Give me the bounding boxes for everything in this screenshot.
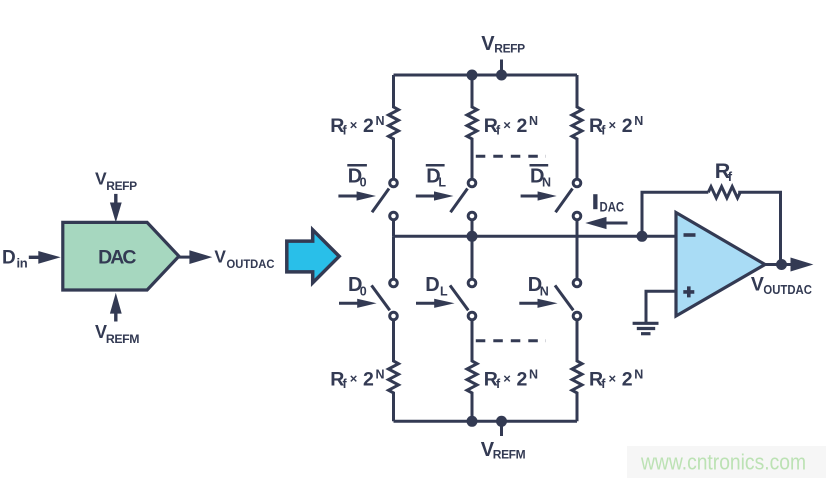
wire V_REFP stub bbox=[500, 60, 503, 76]
svg-text:DAC: DAC bbox=[98, 246, 136, 268]
svg-text:D: D bbox=[425, 274, 439, 296]
node V_OUTDAC (op-amp) bbox=[751, 273, 813, 297]
svg-text:N: N bbox=[542, 176, 551, 190]
label D̄N + control arrow (top col3) bbox=[521, 165, 557, 200]
ground bbox=[633, 323, 659, 333]
svg-text:REFP: REFP bbox=[106, 179, 137, 193]
dashed separator (bottom) bbox=[476, 339, 546, 342]
wire col3 switch to mid bus bbox=[576, 221, 579, 236]
dashed separator (top) bbox=[476, 155, 546, 158]
svg-text:OUTDAC: OUTDAC bbox=[227, 257, 275, 271]
node V_REFM (ladder) bbox=[481, 439, 526, 462]
switch DN (bottom col3) bbox=[555, 279, 581, 320]
svg-text:2: 2 bbox=[363, 115, 374, 137]
svg-text:REFP: REFP bbox=[494, 42, 525, 56]
svg-text:2: 2 bbox=[622, 369, 633, 391]
svg-text:f: f bbox=[728, 169, 733, 184]
svg-text:2: 2 bbox=[517, 115, 528, 137]
junction dot bottom bus col2 bbox=[467, 416, 478, 427]
resistor Rf x 2^N (bottom col3) bbox=[572, 321, 643, 421]
svg-text:V: V bbox=[481, 33, 495, 55]
svg-text:N: N bbox=[376, 368, 385, 382]
resistor Rf x 2^N (top col1) bbox=[330, 75, 398, 178]
svg-text:OUTDAC: OUTDAC bbox=[763, 282, 812, 297]
switch D̄L (top col2) bbox=[451, 179, 476, 220]
svg-text:f: f bbox=[601, 377, 606, 391]
svg-text:REFM: REFM bbox=[493, 448, 526, 462]
switch D̄0 (top col1) bbox=[372, 179, 397, 220]
big flow arrow bbox=[287, 230, 339, 283]
svg-text:N: N bbox=[540, 284, 549, 298]
svg-text:f: f bbox=[601, 124, 606, 138]
svg-text:V: V bbox=[214, 246, 226, 266]
junction dot top bus col2 bbox=[467, 70, 478, 81]
node D_in bbox=[2, 247, 61, 270]
wire col1 switch to mid bus bbox=[392, 221, 395, 236]
watermark bbox=[627, 446, 826, 478]
svg-text:DAC: DAC bbox=[600, 200, 625, 216]
svg-text:×: × bbox=[503, 371, 511, 386]
svg-text:2: 2 bbox=[622, 115, 633, 137]
svg-text:L: L bbox=[438, 176, 446, 190]
label D0 + control arrow (bottom col1) bbox=[339, 274, 377, 308]
svg-text:f: f bbox=[343, 124, 348, 138]
label D̄L + control arrow (top col2) bbox=[416, 165, 454, 200]
svg-text:×: × bbox=[609, 371, 617, 386]
svg-text:N: N bbox=[529, 114, 538, 128]
svg-text:0: 0 bbox=[360, 284, 367, 298]
svg-text:×: × bbox=[609, 117, 617, 132]
svg-text:V: V bbox=[95, 168, 107, 188]
switch DL (bottom col2) bbox=[450, 279, 476, 320]
wire feedback tap up bbox=[642, 192, 708, 236]
node V_OUTDAC (DAC block output) bbox=[179, 246, 275, 271]
switch D̄N (top col3) bbox=[556, 179, 581, 220]
svg-text:f: f bbox=[343, 377, 348, 391]
output arrow bbox=[782, 258, 814, 272]
wire col3 mid bus to lower switch bbox=[576, 236, 579, 278]
junction dot output bbox=[776, 259, 787, 270]
svg-text:N: N bbox=[634, 114, 643, 128]
svg-text:×: × bbox=[503, 117, 511, 132]
svg-text:2: 2 bbox=[517, 369, 528, 391]
svg-text:L: L bbox=[440, 284, 448, 298]
label D̄0 + control arrow (top col1) bbox=[338, 165, 376, 200]
svg-text:N: N bbox=[376, 114, 385, 128]
node V_REFM (DAC block) bbox=[95, 293, 139, 347]
svg-text:f: f bbox=[496, 377, 501, 391]
wire op-amp output bbox=[765, 263, 782, 266]
wire col2 mid bus to lower switch bbox=[471, 236, 474, 278]
junction dot mid bus feedback tap bbox=[637, 231, 648, 242]
wire col1 mid bus to lower switch bbox=[392, 236, 395, 278]
node V_REFP (DAC block) bbox=[95, 168, 137, 222]
svg-text:0: 0 bbox=[360, 176, 367, 190]
DAC block U1 bbox=[63, 222, 179, 290]
label DN + control arrow (bottom col3) bbox=[519, 274, 557, 308]
wire feedback to output bbox=[738, 192, 780, 264]
resistor Rf x 2^N (bottom col2) bbox=[467, 321, 538, 421]
svg-text:www.cntronics.com: www.cntronics.com bbox=[640, 450, 806, 475]
svg-text:REFM: REFM bbox=[106, 332, 139, 346]
wire V_REFM stub bbox=[500, 421, 503, 436]
svg-text:2: 2 bbox=[363, 369, 374, 391]
resistor Rf (feedback) bbox=[708, 159, 740, 198]
wire col2 switch to mid bus bbox=[471, 221, 474, 236]
wire top bus bbox=[394, 74, 578, 77]
svg-text:D: D bbox=[2, 247, 15, 268]
svg-text:×: × bbox=[350, 371, 358, 386]
junction dot mid bus col2 bbox=[467, 231, 478, 242]
label I_DAC + current arrow bbox=[585, 194, 627, 229]
wire middle bus bbox=[394, 235, 677, 238]
wire bottom bus bbox=[394, 420, 578, 423]
node V_REFP (ladder) bbox=[481, 33, 525, 56]
wire non-inverting input to ground bbox=[646, 291, 676, 322]
op-amp U1 bbox=[676, 213, 765, 317]
resistor Rf x 2^N (top col3) bbox=[572, 75, 643, 178]
svg-text:V: V bbox=[751, 273, 764, 295]
svg-text:f: f bbox=[496, 124, 501, 138]
junction dot top bus V_REFP bbox=[496, 70, 507, 81]
svg-text:×: × bbox=[350, 117, 358, 132]
junction dot bottom bus V_REFM bbox=[496, 416, 507, 427]
resistor Rf x 2^N (bottom col1) bbox=[330, 321, 398, 421]
switch D0 (bottom col1) bbox=[372, 279, 398, 320]
label DL + control arrow (bottom col2) bbox=[416, 274, 455, 308]
svg-text:N: N bbox=[634, 368, 643, 382]
svg-text:N: N bbox=[529, 368, 538, 382]
resistor Rf x 2^N (top col2) bbox=[467, 75, 538, 178]
svg-text:in: in bbox=[17, 255, 28, 270]
